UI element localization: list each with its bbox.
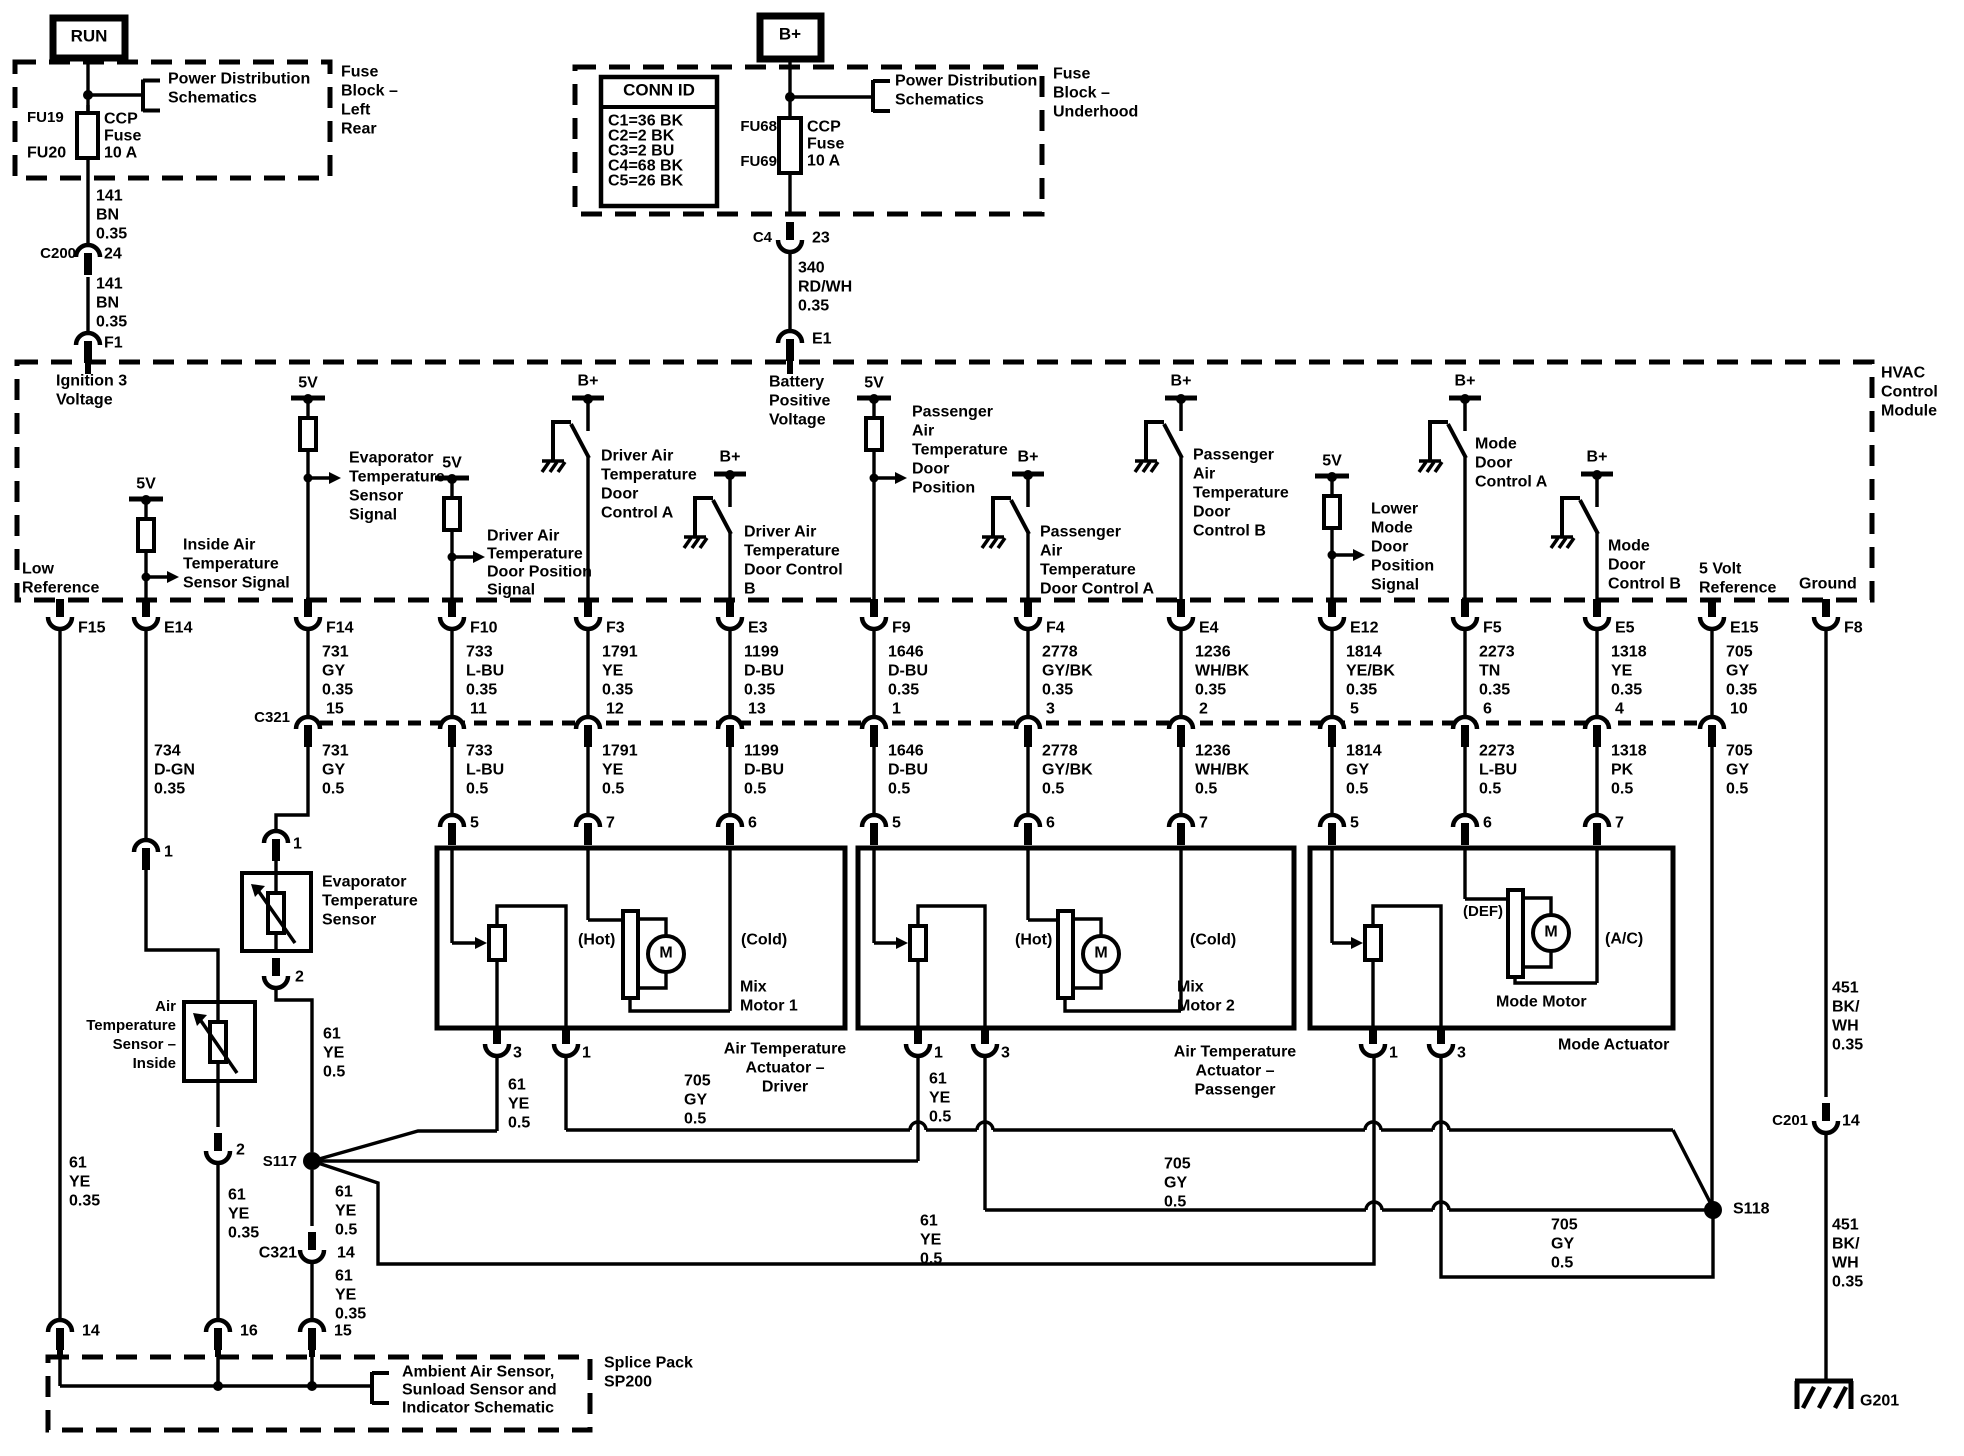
svg-text:Driver Air: Driver Air <box>601 448 673 465</box>
svg-text:7: 7 <box>1615 815 1624 832</box>
svg-text:Position: Position <box>1371 558 1434 575</box>
svg-text:F1: F1 <box>104 335 123 352</box>
svg-text:Actuator –: Actuator – <box>745 1060 824 1077</box>
svg-text:Fuse: Fuse <box>341 64 378 81</box>
svg-text:4: 4 <box>1615 701 1624 718</box>
svg-text:1814: 1814 <box>1346 644 1382 661</box>
svg-text:Door: Door <box>601 486 638 503</box>
svg-text:5V: 5V <box>442 455 462 472</box>
svg-text:Indicator Schematic: Indicator Schematic <box>402 1400 554 1417</box>
svg-text:6: 6 <box>748 815 757 832</box>
svg-text:0.35: 0.35 <box>798 298 829 315</box>
svg-text:1318: 1318 <box>1611 743 1647 760</box>
svg-text:YE: YE <box>228 1206 250 1223</box>
svg-text:61: 61 <box>335 1184 353 1201</box>
svg-text:Mode: Mode <box>1371 520 1413 537</box>
svg-text:0.5: 0.5 <box>1726 781 1748 798</box>
svg-text:5V: 5V <box>864 375 884 392</box>
svg-text:340: 340 <box>798 260 825 277</box>
svg-text:F10: F10 <box>470 620 498 637</box>
svg-text:3: 3 <box>513 1045 522 1062</box>
svg-text:451: 451 <box>1832 1217 1859 1234</box>
svg-text:L-BU: L-BU <box>466 663 504 680</box>
svg-text:GY: GY <box>684 1092 707 1109</box>
svg-text:0.35: 0.35 <box>744 682 775 699</box>
svg-text:F14: F14 <box>326 620 354 637</box>
svg-text:Mode: Mode <box>1475 436 1517 453</box>
svg-text:5: 5 <box>1350 815 1359 832</box>
svg-text:BN: BN <box>96 295 119 312</box>
svg-text:E12: E12 <box>1350 620 1379 637</box>
svg-text:RUN: RUN <box>71 26 108 45</box>
svg-text:(Cold): (Cold) <box>741 932 787 949</box>
svg-text:15: 15 <box>326 701 344 718</box>
svg-text:BK/: BK/ <box>1832 1236 1860 1253</box>
svg-text:GY: GY <box>322 663 345 680</box>
svg-text:Door: Door <box>1608 557 1645 574</box>
svg-text:(Hot): (Hot) <box>578 932 615 949</box>
svg-text:2273: 2273 <box>1479 743 1515 760</box>
svg-text:Motor 1: Motor 1 <box>740 998 798 1015</box>
svg-text:1236: 1236 <box>1195 743 1231 760</box>
svg-text:D-BU: D-BU <box>744 762 784 779</box>
svg-text:5: 5 <box>1350 701 1359 718</box>
svg-text:705: 705 <box>1551 1217 1578 1234</box>
svg-text:YE: YE <box>929 1090 951 1107</box>
svg-text:Passenger: Passenger <box>1040 524 1121 541</box>
svg-text:0.5: 0.5 <box>1551 1255 1573 1272</box>
svg-text:YE: YE <box>602 762 624 779</box>
svg-text:Door Control A: Door Control A <box>1040 581 1155 598</box>
svg-text:BN: BN <box>96 207 119 224</box>
svg-text:0.35: 0.35 <box>69 1193 100 1210</box>
svg-text:0.5: 0.5 <box>929 1109 951 1126</box>
svg-text:GY: GY <box>1726 663 1749 680</box>
svg-text:Position: Position <box>912 480 975 497</box>
svg-text:HVAC: HVAC <box>1881 365 1926 382</box>
svg-text:734: 734 <box>154 743 181 760</box>
svg-text:FU19: FU19 <box>27 109 64 126</box>
svg-text:731: 731 <box>322 743 349 760</box>
svg-text:M: M <box>659 945 672 962</box>
svg-text:Door Position: Door Position <box>487 564 592 581</box>
svg-text:0.5: 0.5 <box>322 781 344 798</box>
svg-text:0.5: 0.5 <box>335 1222 357 1239</box>
svg-text:Control B: Control B <box>1193 523 1266 540</box>
svg-text:Motor 2: Motor 2 <box>1177 998 1235 1015</box>
svg-text:705: 705 <box>1726 644 1753 661</box>
svg-text:0.5: 0.5 <box>602 781 624 798</box>
svg-text:GY: GY <box>1164 1175 1187 1192</box>
svg-text:Air: Air <box>155 998 176 1015</box>
svg-text:YE/BK: YE/BK <box>1346 663 1395 680</box>
svg-text:L-BU: L-BU <box>1479 762 1517 779</box>
svg-text:1236: 1236 <box>1195 644 1231 661</box>
svg-text:0.35: 0.35 <box>1832 1274 1863 1291</box>
svg-text:14: 14 <box>1842 1113 1860 1130</box>
svg-text:B+: B+ <box>1587 449 1608 466</box>
svg-text:0.5: 0.5 <box>466 781 488 798</box>
svg-text:Door Control: Door Control <box>744 562 843 579</box>
svg-text:E1: E1 <box>812 331 832 348</box>
svg-text:WH: WH <box>1832 1018 1859 1035</box>
svg-text:Temperature: Temperature <box>601 467 697 484</box>
svg-text:6: 6 <box>1483 701 1492 718</box>
svg-text:Positive: Positive <box>769 393 830 410</box>
svg-text:Temperature: Temperature <box>183 556 279 573</box>
svg-text:F8: F8 <box>1844 620 1863 637</box>
svg-text:WH: WH <box>1832 1255 1859 1272</box>
svg-text:Temperature: Temperature <box>912 442 1008 459</box>
svg-text:1199: 1199 <box>744 644 779 661</box>
svg-text:0.5: 0.5 <box>888 781 910 798</box>
svg-text:Temperature: Temperature <box>86 1017 176 1034</box>
svg-text:(DEF): (DEF) <box>1463 903 1503 920</box>
svg-text:733: 733 <box>466 743 493 760</box>
svg-text:14: 14 <box>337 1245 355 1262</box>
svg-text:GY/BK: GY/BK <box>1042 663 1093 680</box>
svg-text:PK: PK <box>1611 762 1634 779</box>
svg-text:0.5: 0.5 <box>744 781 766 798</box>
svg-text:1: 1 <box>582 1045 591 1062</box>
svg-text:2778: 2778 <box>1042 743 1078 760</box>
svg-text:(Cold): (Cold) <box>1190 932 1236 949</box>
svg-text:24: 24 <box>104 246 122 263</box>
svg-text:10 A: 10 A <box>807 153 841 170</box>
svg-text:0.5: 0.5 <box>1195 781 1217 798</box>
svg-text:F3: F3 <box>606 620 625 637</box>
svg-text:Block –: Block – <box>1053 85 1110 102</box>
svg-text:5: 5 <box>892 815 901 832</box>
svg-text:B: B <box>744 581 756 598</box>
svg-text:Sensor: Sensor <box>322 912 376 929</box>
svg-text:Sunload Sensor and: Sunload Sensor and <box>402 1382 557 1399</box>
svg-text:Mode: Mode <box>1608 538 1650 555</box>
svg-text:1: 1 <box>293 836 302 853</box>
svg-text:B+: B+ <box>1455 373 1476 390</box>
svg-text:6: 6 <box>1046 815 1055 832</box>
svg-text:D-BU: D-BU <box>744 663 784 680</box>
svg-text:Evaporator: Evaporator <box>349 450 433 467</box>
svg-text:Temperature: Temperature <box>349 469 445 486</box>
svg-text:D-BU: D-BU <box>888 762 928 779</box>
svg-text:B+: B+ <box>779 24 801 43</box>
svg-text:Driver Air: Driver Air <box>744 524 816 541</box>
svg-text:E5: E5 <box>1615 620 1635 637</box>
svg-text:61: 61 <box>508 1077 526 1094</box>
svg-text:Voltage: Voltage <box>769 412 826 429</box>
svg-text:BK/: BK/ <box>1832 999 1860 1016</box>
svg-text:Mix: Mix <box>740 979 767 996</box>
svg-text:0.5: 0.5 <box>1346 781 1368 798</box>
svg-text:1646: 1646 <box>888 743 924 760</box>
svg-text:S118: S118 <box>1733 1201 1770 1218</box>
svg-text:(A/C): (A/C) <box>1605 931 1643 948</box>
svg-text:Actuator –: Actuator – <box>1195 1063 1274 1080</box>
svg-text:C5=26 BK: C5=26 BK <box>608 173 684 190</box>
svg-text:C4: C4 <box>753 229 773 246</box>
svg-text:Air: Air <box>1040 543 1062 560</box>
svg-text:YE: YE <box>920 1232 942 1249</box>
svg-text:3: 3 <box>1457 1045 1466 1062</box>
svg-text:Fuse: Fuse <box>1053 66 1090 83</box>
svg-text:Reference: Reference <box>22 580 99 597</box>
svg-text:141: 141 <box>96 276 123 293</box>
svg-text:Inside Air: Inside Air <box>183 537 255 554</box>
svg-text:5V: 5V <box>298 375 318 392</box>
svg-text:1791: 1791 <box>602 644 638 661</box>
svg-text:S117: S117 <box>263 1153 297 1170</box>
svg-text:B+: B+ <box>578 373 599 390</box>
svg-text:Temperature: Temperature <box>487 546 583 563</box>
svg-text:Temperature: Temperature <box>1193 485 1289 502</box>
svg-text:5V: 5V <box>136 476 156 493</box>
svg-text:WH/BK: WH/BK <box>1195 663 1250 680</box>
svg-text:RD/WH: RD/WH <box>798 279 852 296</box>
svg-text:B+: B+ <box>1018 449 1039 466</box>
svg-text:61: 61 <box>920 1213 938 1230</box>
svg-text:M: M <box>1094 945 1107 962</box>
svg-text:61: 61 <box>335 1268 353 1285</box>
svg-text:Schematics: Schematics <box>168 90 257 107</box>
svg-text:0.35: 0.35 <box>602 682 633 699</box>
svg-text:G201: G201 <box>1860 1393 1899 1410</box>
svg-text:6: 6 <box>1483 815 1492 832</box>
svg-text:0.35: 0.35 <box>1611 682 1642 699</box>
svg-text:14: 14 <box>82 1323 100 1340</box>
svg-text:Control B: Control B <box>1608 576 1681 593</box>
svg-text:10: 10 <box>1730 701 1748 718</box>
svg-text:61: 61 <box>69 1155 87 1172</box>
svg-text:Air Temperature: Air Temperature <box>724 1041 847 1058</box>
svg-text:Driver: Driver <box>762 1079 808 1096</box>
svg-text:Lower: Lower <box>1371 501 1418 518</box>
svg-text:3: 3 <box>1046 701 1055 718</box>
svg-text:2273: 2273 <box>1479 644 1515 661</box>
svg-text:Sensor Signal: Sensor Signal <box>183 575 290 592</box>
svg-text:WH/BK: WH/BK <box>1195 762 1250 779</box>
svg-text:5 Volt: 5 Volt <box>1699 561 1742 578</box>
svg-text:Evaporator: Evaporator <box>322 874 406 891</box>
svg-text:TN: TN <box>1479 663 1500 680</box>
svg-text:Driver Air: Driver Air <box>487 528 559 545</box>
svg-text:705: 705 <box>684 1073 711 1090</box>
svg-text:3: 3 <box>1001 1045 1010 1062</box>
svg-text:B+: B+ <box>1171 373 1192 390</box>
svg-text:1318: 1318 <box>1611 644 1647 661</box>
svg-text:FU68: FU68 <box>740 118 777 135</box>
svg-text:2: 2 <box>1199 701 1208 718</box>
svg-text:E14: E14 <box>164 620 193 637</box>
svg-text:F15: F15 <box>78 620 106 637</box>
svg-text:23: 23 <box>812 230 830 247</box>
svg-text:Splice Pack: Splice Pack <box>604 1355 693 1372</box>
svg-text:YE: YE <box>335 1203 357 1220</box>
svg-text:GY: GY <box>1346 762 1369 779</box>
svg-text:0.5: 0.5 <box>508 1115 530 1132</box>
svg-text:Schematics: Schematics <box>895 92 984 109</box>
svg-text:SP200: SP200 <box>604 1374 652 1391</box>
svg-text:GY/BK: GY/BK <box>1042 762 1093 779</box>
svg-text:141: 141 <box>96 188 123 205</box>
svg-text:B+: B+ <box>720 449 741 466</box>
svg-text:Mode Actuator: Mode Actuator <box>1558 1037 1669 1054</box>
svg-text:0.35: 0.35 <box>1195 682 1226 699</box>
svg-text:E4: E4 <box>1199 620 1219 637</box>
svg-text:F5: F5 <box>1483 620 1502 637</box>
svg-text:Sensor –: Sensor – <box>113 1036 176 1053</box>
svg-text:Door: Door <box>912 461 949 478</box>
svg-text:Left: Left <box>341 102 371 119</box>
svg-text:Signal: Signal <box>487 582 535 599</box>
svg-text:0.35: 0.35 <box>888 682 919 699</box>
svg-text:F4: F4 <box>1046 620 1065 637</box>
svg-text:Mode Motor: Mode Motor <box>1496 994 1587 1011</box>
svg-text:Signal: Signal <box>1371 577 1419 594</box>
svg-text:Voltage: Voltage <box>56 392 113 409</box>
svg-text:1: 1 <box>892 701 901 718</box>
svg-text:Signal: Signal <box>349 507 397 524</box>
svg-text:Mix: Mix <box>1177 979 1204 996</box>
svg-text:1: 1 <box>934 1045 943 1062</box>
svg-text:YE: YE <box>508 1096 530 1113</box>
svg-text:0.5: 0.5 <box>1042 781 1064 798</box>
svg-text:Module: Module <box>1881 403 1937 420</box>
svg-text:Ambient Air Sensor,: Ambient Air Sensor, <box>402 1364 554 1381</box>
svg-text:733: 733 <box>466 644 493 661</box>
svg-text:FU20: FU20 <box>27 145 66 162</box>
svg-text:2778: 2778 <box>1042 644 1078 661</box>
svg-text:Air: Air <box>912 423 934 440</box>
svg-text:705: 705 <box>1726 743 1753 760</box>
svg-text:1199: 1199 <box>744 743 779 760</box>
svg-text:YE: YE <box>69 1174 91 1191</box>
svg-text:Low: Low <box>22 561 55 578</box>
svg-text:GY: GY <box>322 762 345 779</box>
svg-text:5V: 5V <box>1322 453 1342 470</box>
svg-text:Air: Air <box>1193 466 1215 483</box>
svg-text:Door: Door <box>1193 504 1230 521</box>
svg-text:Fuse: Fuse <box>104 128 141 145</box>
svg-text:5: 5 <box>470 815 479 832</box>
svg-text:61: 61 <box>323 1026 341 1043</box>
svg-text:61: 61 <box>929 1071 947 1088</box>
svg-text:0.35: 0.35 <box>1346 682 1377 699</box>
svg-text:0.35: 0.35 <box>466 682 497 699</box>
svg-text:GY: GY <box>1726 762 1749 779</box>
svg-text:0.35: 0.35 <box>96 226 127 243</box>
svg-text:Door: Door <box>1371 539 1408 556</box>
svg-text:Temperature: Temperature <box>1040 562 1136 579</box>
svg-text:M: M <box>1544 924 1557 941</box>
svg-text:E15: E15 <box>1730 620 1759 637</box>
svg-text:Sensor: Sensor <box>349 488 403 505</box>
svg-text:0.35: 0.35 <box>154 781 185 798</box>
svg-text:12: 12 <box>606 701 624 718</box>
svg-text:0.5: 0.5 <box>1611 781 1633 798</box>
svg-text:Inside: Inside <box>133 1055 176 1072</box>
svg-text:CCP: CCP <box>104 111 138 128</box>
svg-text:Door: Door <box>1475 455 1512 472</box>
svg-text:16: 16 <box>240 1323 258 1340</box>
svg-text:0.5: 0.5 <box>920 1251 942 1268</box>
svg-text:0.35: 0.35 <box>1479 682 1510 699</box>
svg-text:C321: C321 <box>254 709 290 726</box>
svg-text:Passenger: Passenger <box>1195 1082 1276 1099</box>
svg-text:Ground: Ground <box>1799 576 1857 593</box>
svg-text:D-BU: D-BU <box>888 663 928 680</box>
svg-text:F9: F9 <box>892 620 911 637</box>
svg-text:1646: 1646 <box>888 644 924 661</box>
svg-text:2: 2 <box>236 1142 245 1159</box>
svg-text:0.35: 0.35 <box>1042 682 1073 699</box>
svg-text:10 A: 10 A <box>104 145 138 162</box>
svg-text:13: 13 <box>748 701 766 718</box>
svg-text:Rear: Rear <box>341 121 377 138</box>
svg-text:Reference: Reference <box>1699 580 1776 597</box>
svg-text:1: 1 <box>164 844 173 861</box>
svg-text:Fuse: Fuse <box>807 136 844 153</box>
svg-text:Battery: Battery <box>769 374 824 391</box>
svg-text:Block –: Block – <box>341 83 398 100</box>
svg-text:Passenger: Passenger <box>912 404 993 421</box>
svg-text:Control A: Control A <box>1475 474 1548 491</box>
svg-text:731: 731 <box>322 644 349 661</box>
svg-text:CCP: CCP <box>807 119 841 136</box>
svg-text:7: 7 <box>606 815 615 832</box>
svg-text:0.35: 0.35 <box>1832 1037 1863 1054</box>
svg-text:Power Distribution: Power Distribution <box>168 71 310 88</box>
svg-text:Control: Control <box>1881 384 1938 401</box>
svg-text:0.35: 0.35 <box>322 682 353 699</box>
svg-text:Control A: Control A <box>601 505 674 522</box>
svg-text:Ignition 3: Ignition 3 <box>56 373 127 390</box>
svg-text:0.5: 0.5 <box>1479 781 1501 798</box>
svg-text:11: 11 <box>470 701 487 718</box>
svg-text:D-GN: D-GN <box>154 762 195 779</box>
svg-text:451: 451 <box>1832 980 1859 997</box>
svg-text:FU69: FU69 <box>740 153 777 170</box>
svg-text:0.35: 0.35 <box>228 1225 259 1242</box>
svg-text:Underhood: Underhood <box>1053 104 1138 121</box>
svg-text:YE: YE <box>1611 663 1633 680</box>
svg-text:(Hot): (Hot) <box>1015 932 1052 949</box>
svg-text:Power Distribution: Power Distribution <box>895 73 1037 90</box>
svg-text:1814: 1814 <box>1346 743 1382 760</box>
svg-text:705: 705 <box>1164 1156 1191 1173</box>
svg-text:0.5: 0.5 <box>1164 1194 1186 1211</box>
svg-text:0.35: 0.35 <box>96 314 127 331</box>
svg-text:61: 61 <box>228 1187 246 1204</box>
svg-text:C200: C200 <box>40 245 76 262</box>
svg-text:Temperature: Temperature <box>322 893 418 910</box>
svg-text:C321: C321 <box>259 1245 297 1262</box>
svg-text:Temperature: Temperature <box>744 543 840 560</box>
svg-text:0.35: 0.35 <box>1726 682 1757 699</box>
svg-text:0.5: 0.5 <box>684 1111 706 1128</box>
svg-text:YE: YE <box>323 1045 345 1062</box>
svg-text:Passenger: Passenger <box>1193 447 1274 464</box>
svg-text:0.5: 0.5 <box>323 1064 345 1081</box>
svg-text:0.35: 0.35 <box>335 1306 366 1323</box>
svg-text:E3: E3 <box>748 620 768 637</box>
svg-text:L-BU: L-BU <box>466 762 504 779</box>
svg-text:YE: YE <box>602 663 624 680</box>
svg-text:1791: 1791 <box>602 743 638 760</box>
svg-text:2: 2 <box>295 969 304 986</box>
svg-text:Air Temperature: Air Temperature <box>1174 1044 1297 1061</box>
svg-text:15: 15 <box>334 1323 352 1340</box>
